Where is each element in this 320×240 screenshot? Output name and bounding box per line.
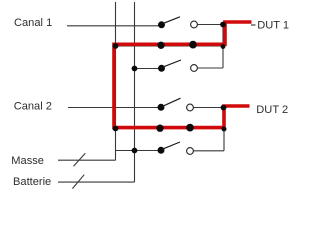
node junction row1/DUT1 [220,22,226,28]
svg-text:Canal 2: Canal 2 [14,100,52,112]
node junction bus2 right [222,127,227,132]
switch S2 closed on bus1: pivot dot [157,42,164,49]
node junction V1-bus1 [113,43,119,49]
node junction V2-row3 [132,66,138,72]
switch S1 blade [163,17,181,24]
vertical bus line V2 (Batterie rail) [134,2,136,182]
switch S5 closed on bus2: pivot dot [156,125,163,132]
node junction canal2/DUT2 [221,105,227,111]
wire Masse input [58,159,116,161]
svg-text:Batterie: Batterie [13,176,51,188]
wire right vertical group2 [223,108,225,151]
switch S1 pivot (Canal 1, open) [158,21,165,28]
switch S6 blade [162,142,180,149]
wire row3 contact to vertical [198,67,224,69]
switch S3 contact [191,65,198,72]
break slash on Masse wire [74,153,86,166]
switch S4 contact [187,104,194,111]
wire row1 contact to DUT1 node [198,24,224,26]
wire Canal 1 input [67,25,162,27]
wire black tick before DUT 1 label [251,24,256,26]
svg-text:DUT 2: DUT 2 [256,104,288,116]
node junction bus1 right [221,44,226,49]
svg-text:Canal 1: Canal 1 [14,17,52,29]
svg-text:DUT 1: DUT 1 [257,20,289,32]
switch S6 contact [187,148,194,155]
wire Batterie input [58,181,135,183]
wire row4 contact to vertical [194,150,225,152]
switch S5 closed contact dot [186,124,194,132]
wire row3 from Batterie rail to switch [135,68,162,70]
node junction V1-bus2 [113,126,119,132]
node junction V2-row4 [132,148,138,154]
svg-text:Masse: Masse [11,155,44,167]
switch S4 pivot (Canal 2, open) [158,104,165,111]
switch S3 blade [163,60,182,67]
wire right vertical group1 [222,25,224,69]
switch S2 closed contact dot [189,41,197,49]
wire bus2 (relay common row 2) [116,128,224,130]
wire row canal2 contact to DUT2 node [194,107,225,109]
switch S4 blade [162,98,180,106]
break slash on Batterie wire [72,175,84,189]
switch S3 pivot (row3, open) [158,65,165,72]
wire bus1 (relay common row 1) [116,45,224,47]
switch S6 pivot (row4, open) [158,147,165,154]
vertical bus line V1 (Masse rail) [115,2,117,160]
switch S1 contact [191,21,198,28]
wire row4 from rails to switch [116,150,162,152]
wire Canal 2 input [68,107,162,109]
red highlighted current path DUT1-bus1-bus2-DUT2 [114,22,252,128]
